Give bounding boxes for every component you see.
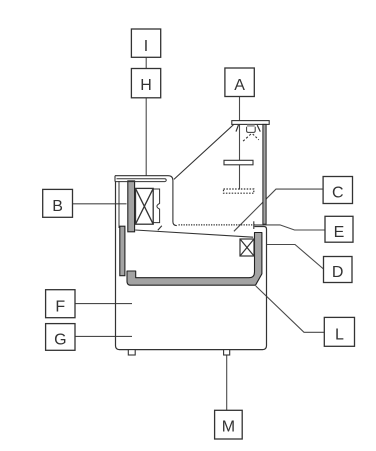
svg-text:G: G — [54, 332, 66, 349]
svg-text:C: C — [332, 185, 344, 202]
svg-text:M: M — [222, 419, 235, 436]
svg-text:H: H — [140, 77, 152, 94]
svg-text:E: E — [334, 224, 345, 241]
svg-text:D: D — [332, 264, 344, 281]
svg-text:L: L — [335, 327, 344, 344]
svg-text:I: I — [144, 38, 148, 55]
svg-text:B: B — [52, 198, 63, 215]
svg-text:F: F — [55, 298, 65, 315]
svg-text:A: A — [234, 77, 245, 94]
